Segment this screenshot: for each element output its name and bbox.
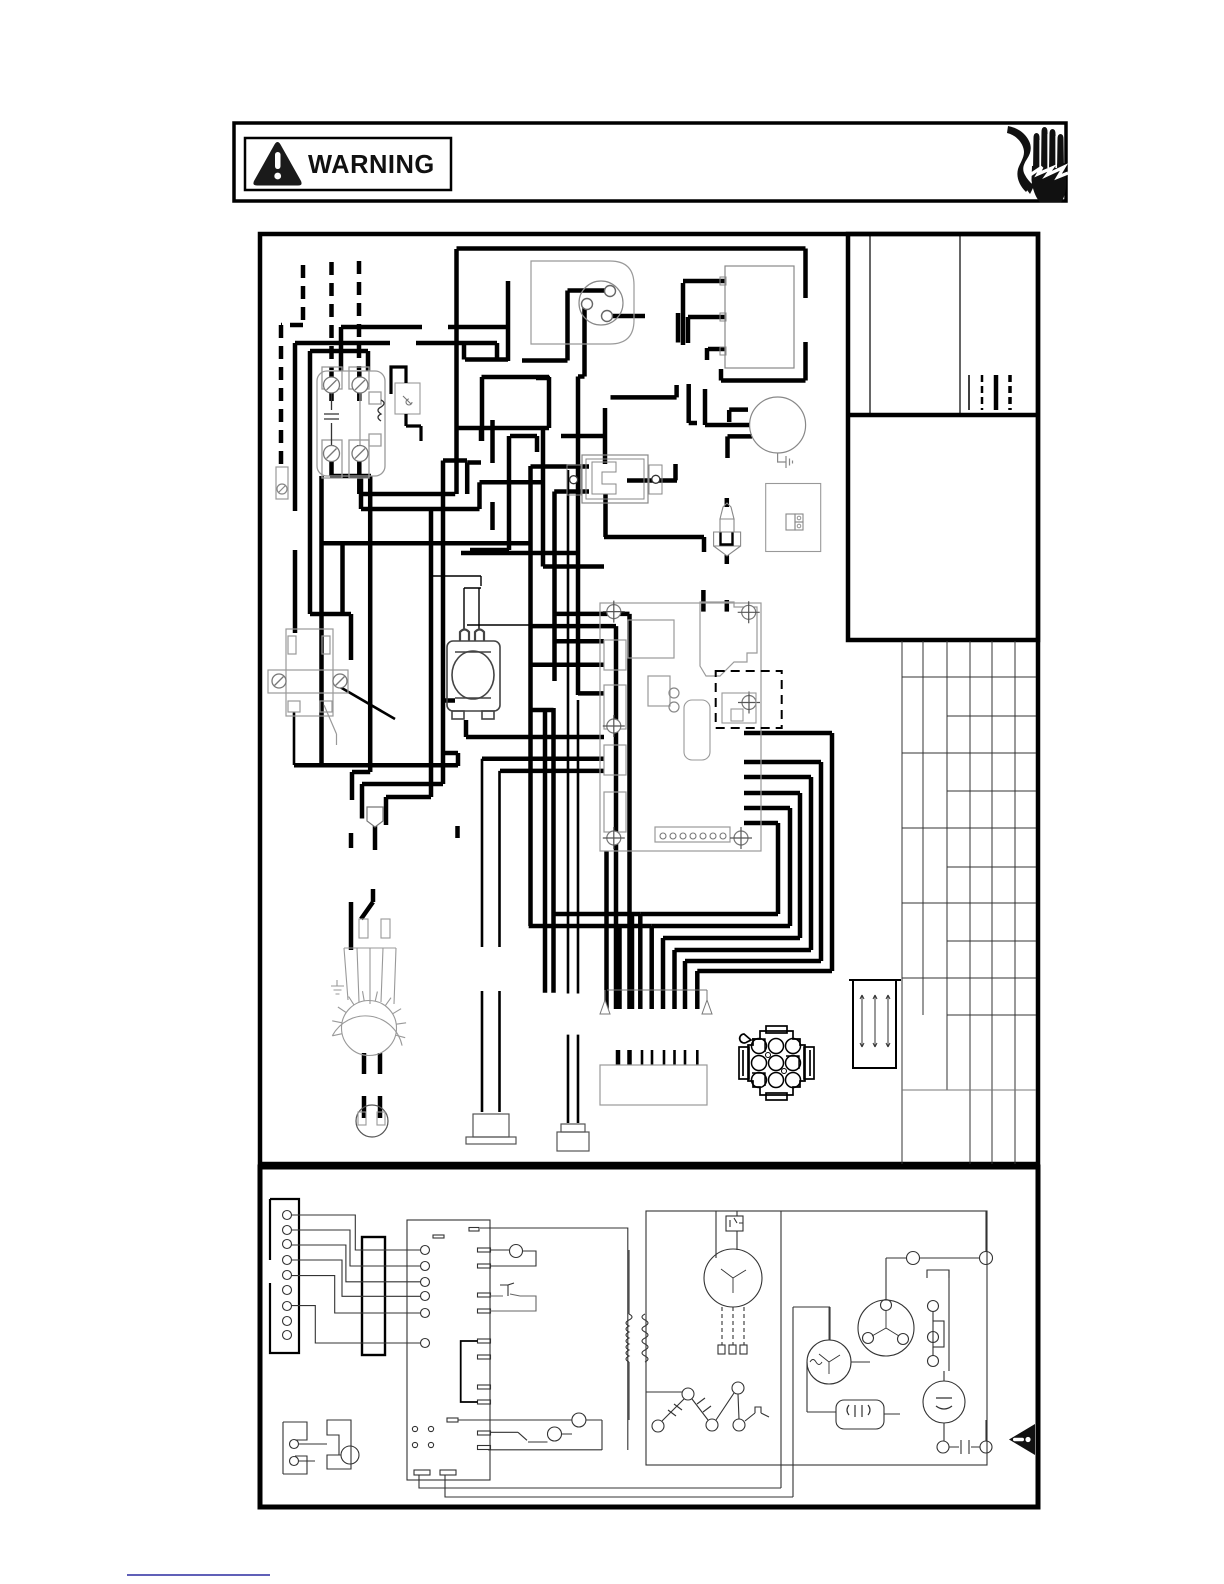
svg-text:WARNING: WARNING bbox=[308, 151, 435, 179]
